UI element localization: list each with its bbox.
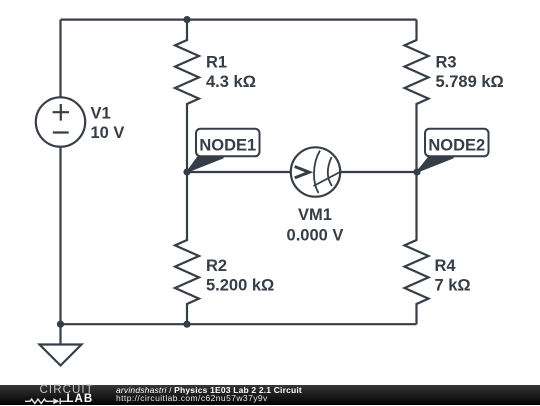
- svg-text:R4: R4: [435, 257, 457, 275]
- svg-text:NODE1: NODE1: [199, 136, 256, 154]
- svg-text:10 V: 10 V: [91, 124, 125, 142]
- svg-text:R1: R1: [206, 54, 227, 72]
- svg-text:4.3 kΩ: 4.3 kΩ: [206, 73, 256, 91]
- svg-text:VM1: VM1: [298, 206, 332, 224]
- svg-text:7 kΩ: 7 kΩ: [435, 277, 471, 295]
- svg-text:5.200 kΩ: 5.200 kΩ: [206, 277, 274, 295]
- svg-text:R3: R3: [436, 54, 457, 72]
- svg-text:NODE2: NODE2: [428, 136, 485, 154]
- svg-text:V1: V1: [91, 105, 111, 123]
- svg-text:5.789 kΩ: 5.789 kΩ: [436, 73, 504, 91]
- svg-text:R2: R2: [206, 257, 227, 275]
- svg-text:0.000 V: 0.000 V: [287, 227, 344, 245]
